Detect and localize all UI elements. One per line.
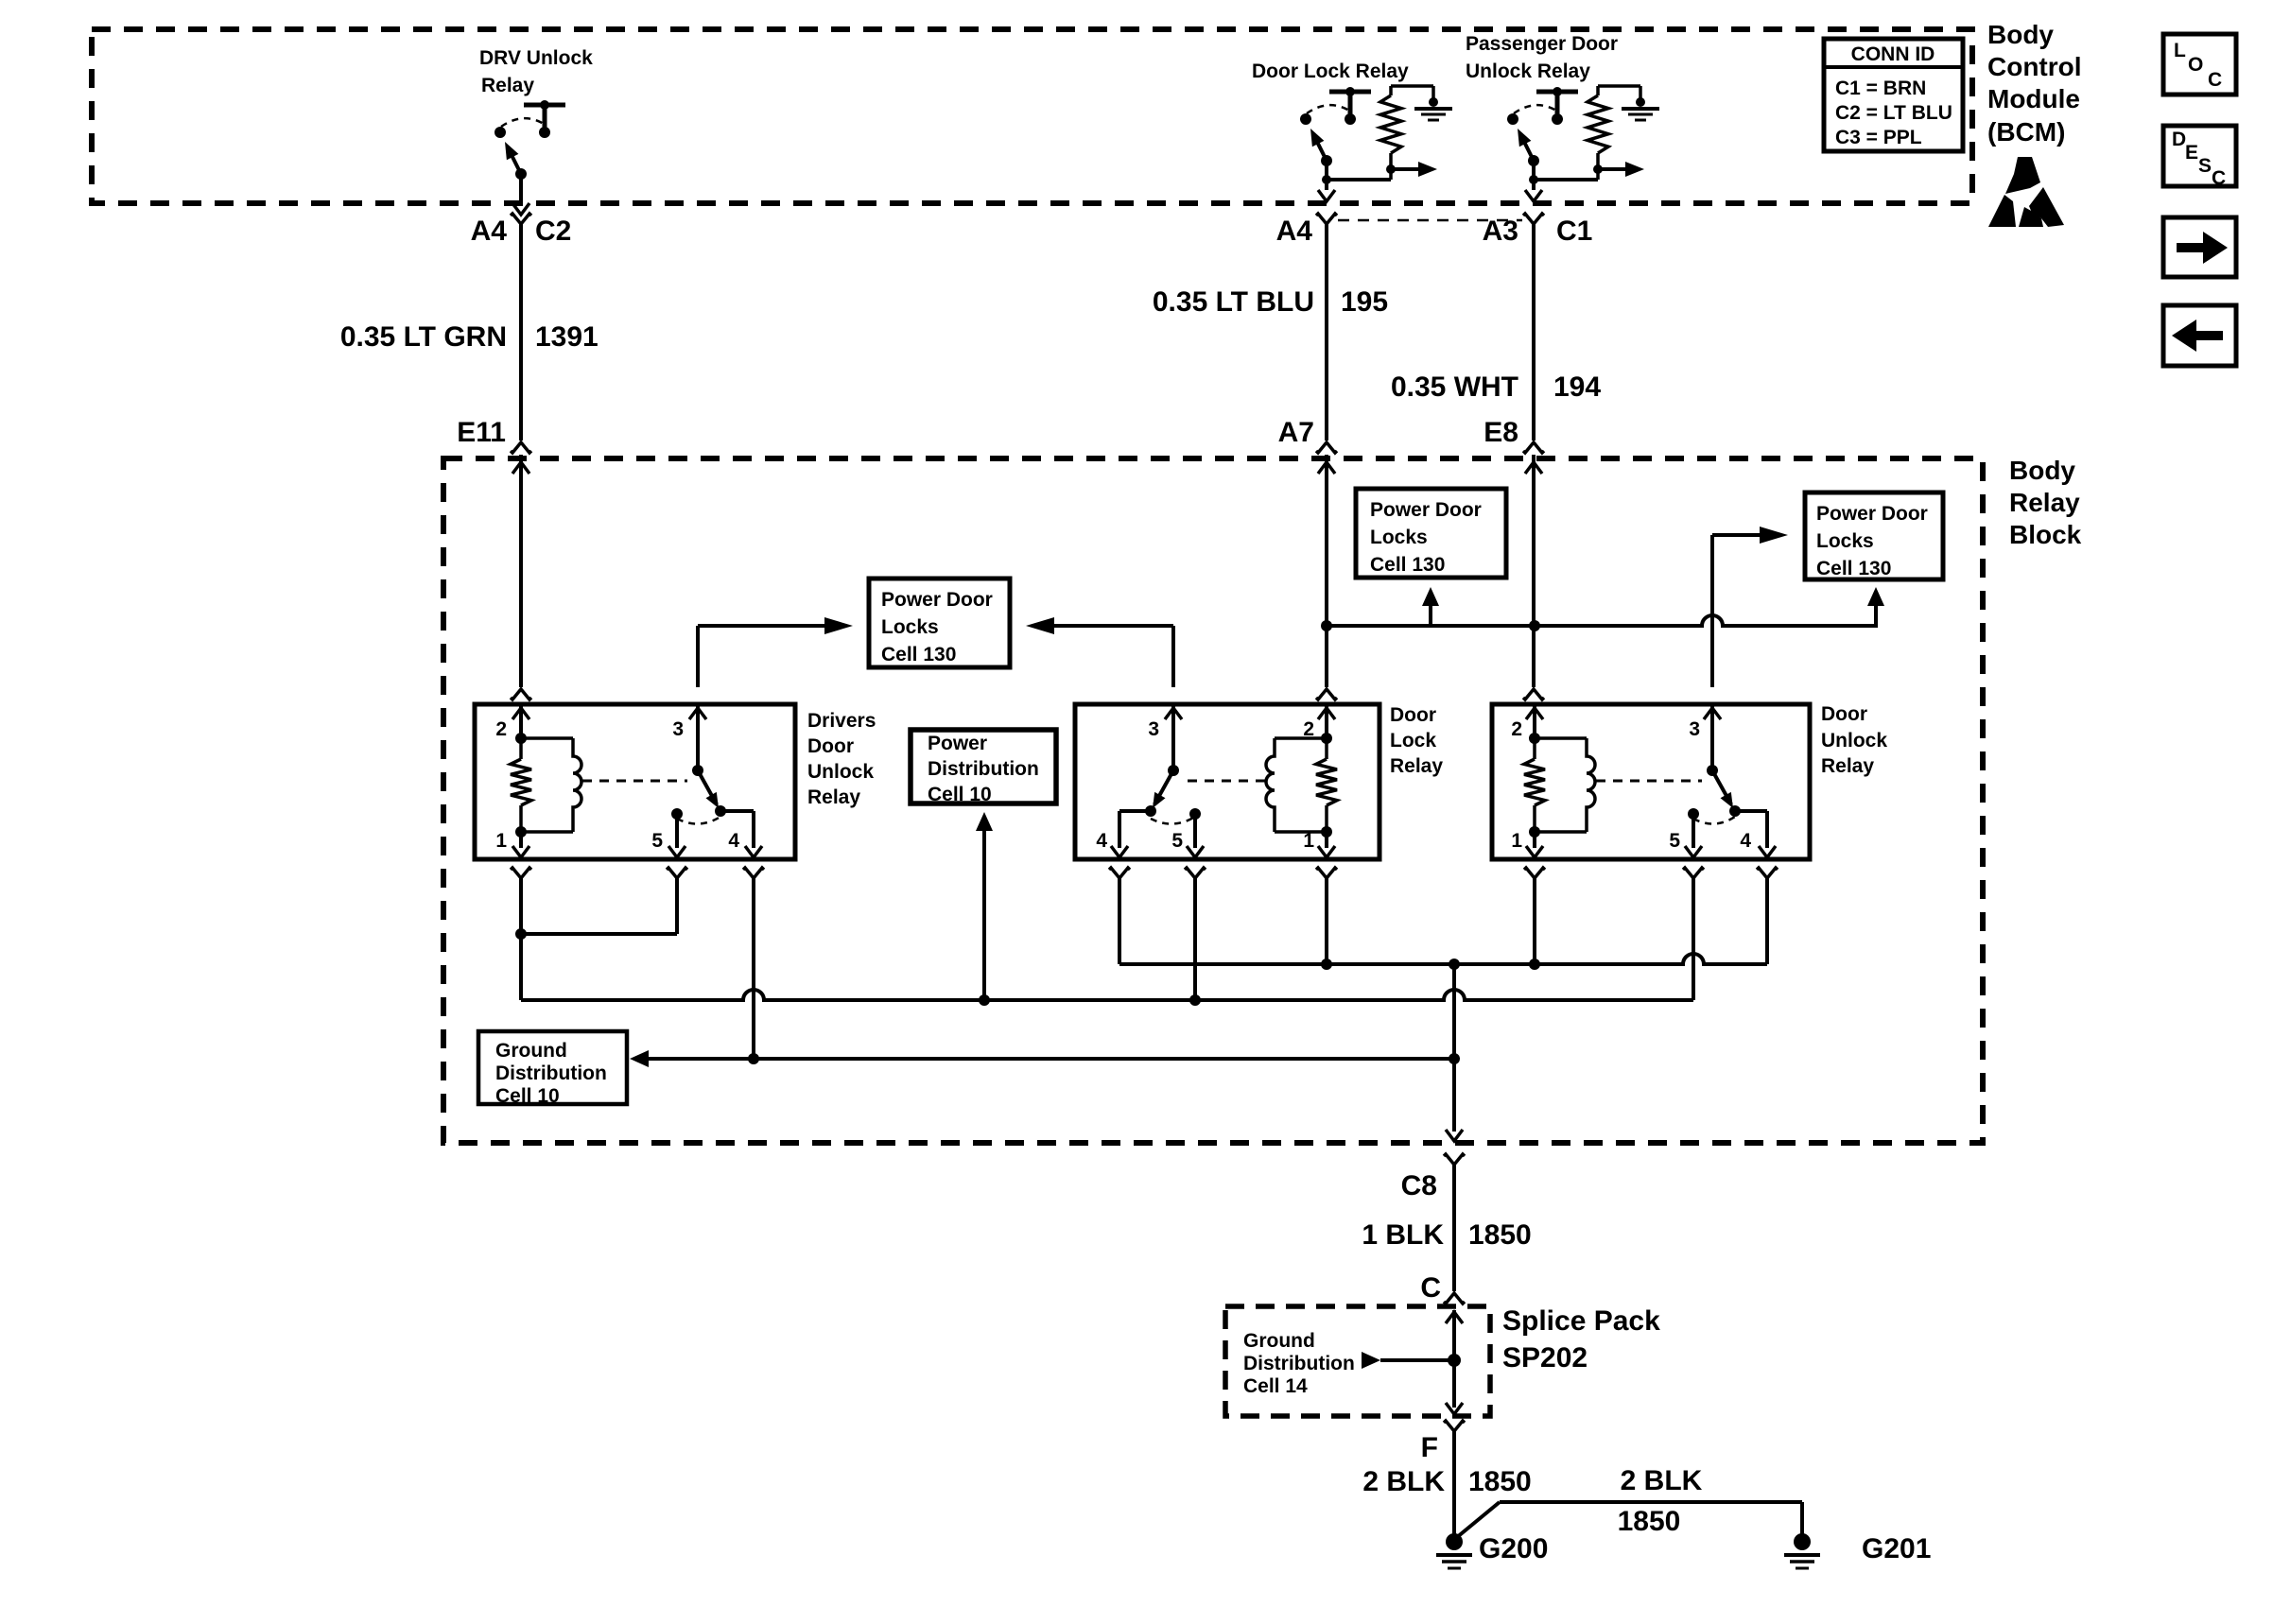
svg-text:1: 1 (1303, 830, 1314, 852)
svg-text:L: L (2174, 40, 2186, 61)
svg-text:C3 = PPL: C3 = PPL (1835, 127, 1922, 148)
svg-text:Cell 130: Cell 130 (881, 644, 956, 665)
svg-text:Block: Block (2009, 520, 2082, 549)
svg-text:Body: Body (1987, 20, 2054, 49)
svg-text:1850: 1850 (1468, 1466, 1532, 1497)
svg-text:Door Lock Relay: Door Lock Relay (1252, 60, 1409, 82)
svg-text:CONN ID: CONN ID (1851, 43, 1935, 65)
svg-text:1850: 1850 (1618, 1506, 1681, 1537)
svg-text:Distribution: Distribution (928, 758, 1039, 780)
svg-text:Power: Power (928, 733, 987, 754)
svg-text:Relay: Relay (1821, 755, 1874, 777)
svg-text:C2: C2 (535, 216, 571, 247)
svg-text:4: 4 (1096, 830, 1107, 852)
svg-text:Control: Control (1987, 52, 2082, 81)
svg-text:Distribution: Distribution (1243, 1353, 1355, 1374)
svg-text:5: 5 (1669, 830, 1680, 852)
svg-text:2: 2 (1303, 718, 1314, 740)
svg-text:Locks: Locks (1816, 530, 1874, 552)
svg-text:Relay: Relay (481, 75, 534, 96)
svg-text:Cell 10: Cell 10 (928, 784, 992, 805)
svg-text:Cell 14: Cell 14 (1243, 1375, 1308, 1397)
svg-text:Power Door: Power Door (881, 589, 993, 611)
svg-text:1: 1 (1511, 830, 1522, 852)
svg-text:Relay: Relay (2009, 488, 2080, 517)
svg-text:Power Door: Power Door (1370, 499, 1482, 521)
svg-text:195: 195 (1341, 286, 1388, 318)
svg-text:S: S (2198, 155, 2212, 177)
svg-text:E11: E11 (457, 417, 506, 448)
svg-text:2 BLK: 2 BLK (1362, 1466, 1445, 1497)
svg-text:E8: E8 (1484, 417, 1518, 448)
svg-text:E: E (2185, 142, 2198, 164)
svg-text:1 BLK: 1 BLK (1362, 1219, 1444, 1251)
svg-text:C: C (2208, 69, 2222, 91)
svg-text:A4: A4 (1276, 216, 1313, 247)
svg-text:Body: Body (2009, 456, 2075, 485)
svg-text:C: C (2212, 167, 2226, 189)
svg-text:1391: 1391 (535, 321, 599, 353)
svg-text:1: 1 (495, 830, 507, 852)
svg-text:Locks: Locks (1370, 527, 1428, 548)
svg-text:2: 2 (495, 718, 507, 740)
svg-text:Passenger Door: Passenger Door (1466, 33, 1618, 55)
svg-text:C1 = BRN: C1 = BRN (1835, 78, 1926, 99)
svg-text:A7: A7 (1278, 417, 1314, 448)
svg-text:D: D (2172, 129, 2186, 150)
svg-text:Door: Door (1390, 704, 1436, 726)
svg-text:F: F (1421, 1432, 1438, 1463)
svg-text:DRV Unlock: DRV Unlock (479, 47, 593, 69)
svg-text:Cell 130: Cell 130 (1370, 554, 1445, 576)
svg-text:3: 3 (1148, 718, 1159, 740)
svg-text:C2 = LT BLU: C2 = LT BLU (1835, 102, 1952, 124)
svg-text:Splice Pack: Splice Pack (1502, 1305, 1660, 1337)
svg-text:G201: G201 (1862, 1533, 1931, 1564)
svg-text:0.35 LT GRN: 0.35 LT GRN (340, 321, 507, 353)
svg-text:A4: A4 (471, 216, 508, 247)
svg-text:O: O (2188, 54, 2203, 76)
svg-text:Drivers: Drivers (807, 710, 876, 732)
svg-text:5: 5 (1171, 830, 1183, 852)
svg-text:1850: 1850 (1468, 1219, 1532, 1251)
svg-text:0.35 WHT: 0.35 WHT (1391, 371, 1518, 403)
svg-text:C: C (1420, 1272, 1441, 1304)
svg-text:G200: G200 (1479, 1533, 1548, 1564)
svg-text:Ground: Ground (1243, 1330, 1315, 1352)
svg-text:4: 4 (728, 830, 739, 852)
svg-text:Module: Module (1987, 84, 2080, 113)
svg-text:Locks: Locks (881, 616, 939, 638)
svg-text:Unlock Relay: Unlock Relay (1466, 60, 1590, 82)
svg-text:A3: A3 (1483, 216, 1518, 247)
svg-text:SP202: SP202 (1502, 1342, 1588, 1373)
svg-text:Relay: Relay (1390, 755, 1443, 777)
svg-text:5: 5 (651, 830, 663, 852)
svg-text:2 BLK: 2 BLK (1621, 1465, 1703, 1496)
svg-text:Unlock: Unlock (807, 761, 874, 783)
svg-text:2: 2 (1511, 718, 1522, 740)
svg-text:Distribution: Distribution (495, 1063, 607, 1084)
svg-text:Lock: Lock (1390, 730, 1436, 752)
svg-text:(BCM): (BCM) (1987, 117, 2065, 147)
svg-text:Relay: Relay (807, 786, 860, 808)
svg-text:C1: C1 (1556, 216, 1592, 247)
svg-text:3: 3 (1689, 718, 1700, 740)
svg-text:Door: Door (807, 735, 854, 757)
svg-text:Cell 10: Cell 10 (495, 1085, 560, 1107)
svg-text:0.35 LT BLU: 0.35 LT BLU (1153, 286, 1314, 318)
svg-text:Unlock: Unlock (1821, 730, 1887, 752)
svg-text:194: 194 (1553, 371, 1601, 403)
svg-text:4: 4 (1740, 830, 1751, 852)
svg-text:Power Door: Power Door (1816, 503, 1928, 525)
svg-text:Cell 130: Cell 130 (1816, 558, 1891, 579)
svg-text:C8: C8 (1401, 1170, 1437, 1201)
svg-text:3: 3 (672, 718, 684, 740)
svg-text:Door: Door (1821, 703, 1867, 725)
svg-text:Ground: Ground (495, 1040, 567, 1062)
